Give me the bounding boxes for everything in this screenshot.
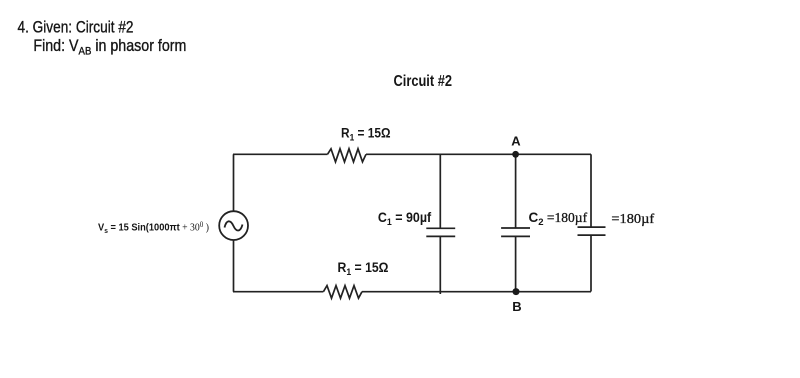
source V1 sine symbol — [225, 221, 243, 230]
wire top right segment — [366, 153, 591, 155]
capacitor C2 plates — [501, 228, 530, 236]
wire bottom left segment — [233, 291, 323, 293]
svg-text:C1 = 90µf: C1 = 90µf — [378, 210, 432, 228]
wire right side upper — [590, 154, 592, 227]
wire left side lower — [233, 240, 235, 292]
node B junction dot — [513, 288, 520, 295]
wire left side upper — [233, 154, 235, 211]
wire top left segment — [233, 153, 328, 155]
node A junction dot — [512, 151, 519, 158]
wire bottom right segment — [362, 291, 591, 293]
svg-text:A: A — [511, 133, 521, 148]
wire branch C1 upper — [439, 154, 441, 228]
wire right side lower — [590, 235, 592, 291]
capacitor C1 plates — [426, 228, 455, 236]
wire branch A-B upper — [515, 154, 517, 228]
svg-text:R1 = 15Ω: R1 = 15Ω — [338, 260, 389, 278]
resistor R1 top zigzag — [328, 149, 367, 162]
svg-text:B: B — [512, 299, 521, 314]
svg-text:Vs = 15 Sin(1000πt + 300 ): Vs = 15 Sin(1000πt + 300 ) — [98, 220, 209, 235]
source V1 circle — [219, 211, 248, 240]
svg-text:R1 = 15Ω: R1 = 15Ω — [341, 126, 391, 144]
svg-text:Circuit #2: Circuit #2 — [394, 73, 453, 90]
svg-text:4. Given: Circuit #2: 4. Given: Circuit #2 — [18, 19, 134, 37]
resistor R1 bottom zigzag — [323, 286, 362, 299]
svg-text:Find: VAB in phasor form: Find: VAB in phasor form — [33, 37, 186, 58]
wire branch A-B lower — [515, 236, 517, 291]
capacitor C3 plates (right, =180uf) — [578, 227, 606, 235]
svg-text:=180µf: =180µf — [611, 211, 654, 226]
wire branch C1 lower — [439, 236, 441, 294]
svg-text:C2 =180µf: C2 =180µf — [529, 210, 588, 228]
